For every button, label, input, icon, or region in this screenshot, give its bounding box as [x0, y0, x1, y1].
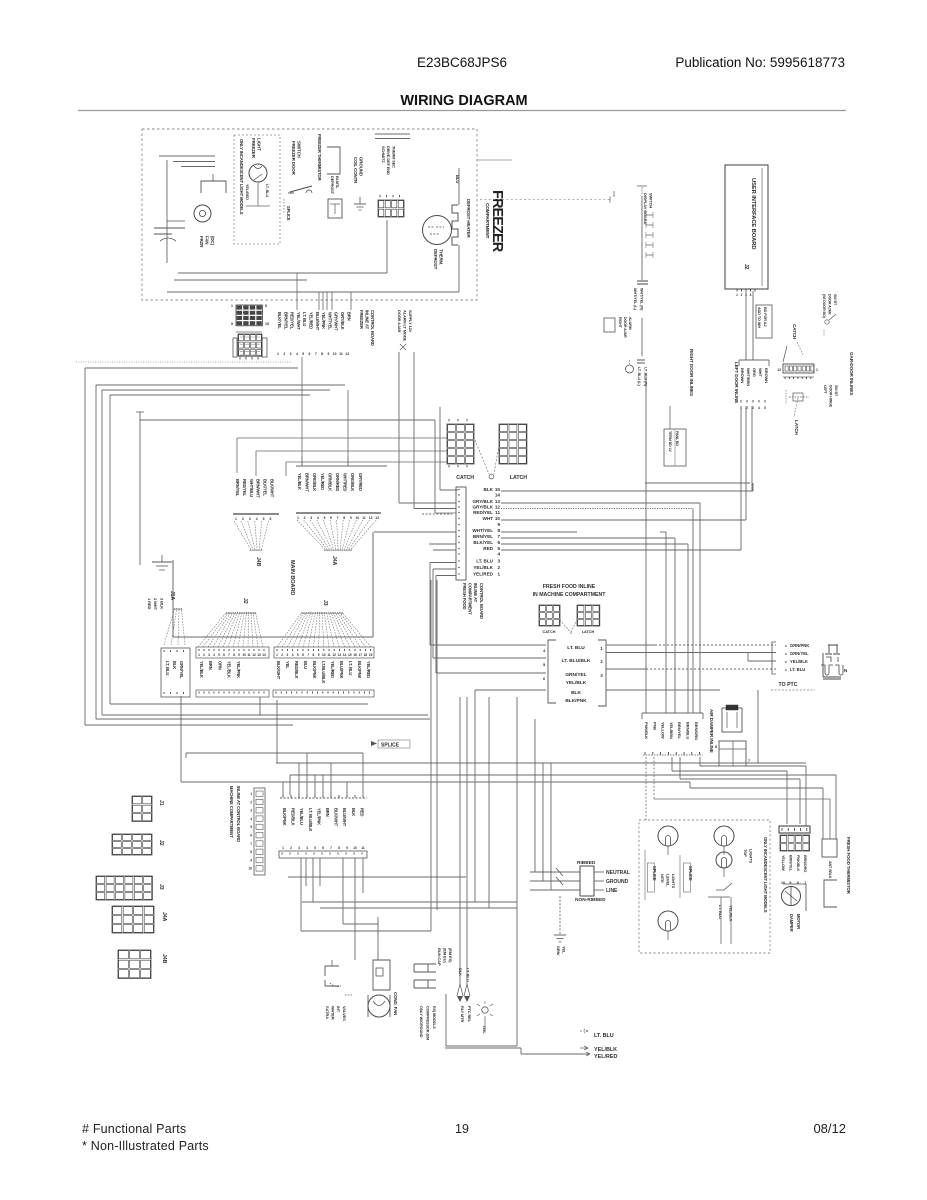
svg-text:RIBBED: RIBBED	[577, 860, 596, 866]
svg-text:SWITCH: SWITCH	[648, 193, 653, 208]
left door inline pins	[740, 400, 766, 410]
svg-text:ADD TO WH: ADD TO WH	[757, 307, 761, 328]
wire	[745, 291, 747, 360]
svg-text:5: 5	[302, 352, 304, 356]
svg-text:LIGHTS: LIGHTS	[748, 849, 753, 863]
svg-text:5: 5	[263, 517, 265, 521]
svg-text:4: 4	[256, 517, 258, 521]
svg-text:BLK: BLK	[351, 808, 356, 816]
svg-text:VALVES: VALVES	[342, 1006, 347, 1021]
label J2 (UI)	[743, 264, 749, 270]
wire bus	[95, 385, 97, 719]
cond fan motor	[368, 995, 390, 1017]
wire	[475, 690, 546, 902]
svg-text:SWITCH: SWITCH	[297, 141, 302, 158]
board lower pin bar	[196, 690, 269, 697]
svg-text:WHT/YEL (L): WHT/YEL (L)	[633, 288, 637, 311]
labels WHT/YEL	[633, 288, 643, 311]
label DOOR AJAR SWITCH	[397, 310, 413, 350]
svg-text:LT. BLU/BLK: LT. BLU/BLK	[308, 808, 313, 832]
wire	[433, 569, 456, 658]
user interface board box	[725, 165, 768, 289]
main board outline	[173, 532, 373, 637]
power ground wire	[554, 896, 566, 942]
inline column labels	[472, 487, 500, 577]
svg-text:PTC REL: PTC REL	[467, 1006, 472, 1023]
svg-text:ALARM: ALARM	[628, 317, 632, 330]
svg-text:WHT/YEL: WHT/YEL	[472, 528, 493, 533]
svg-text:ORN/RED: ORN/RED	[335, 473, 340, 491]
svg-text:4: 4	[750, 293, 752, 297]
wire	[669, 406, 671, 429]
wire	[300, 858, 302, 931]
svg-text:YEL/BRN: YEL/BRN	[669, 722, 674, 739]
svg-text:10: 10	[495, 516, 501, 521]
svg-text:YEL/BLK: YEL/BLK	[227, 661, 232, 678]
machine inline strip	[254, 788, 265, 875]
svg-text:6: 6	[322, 846, 324, 850]
svg-text:SATRA: SATRA	[325, 1006, 330, 1019]
svg-text:FRESH FOOD INLINE: FRESH FOOD INLINE	[543, 584, 596, 590]
svg-text:DAMPER: DAMPER	[789, 914, 794, 932]
svg-text:BRN/YEL: BRN/YEL	[677, 722, 682, 740]
svg-text:WHT/YEL: WHT/YEL	[327, 312, 332, 330]
fresh food inline catch grid	[539, 605, 560, 634]
wire	[551, 763, 563, 890]
svg-text:YEL/BLK: YEL/BLK	[566, 680, 587, 686]
svg-text:(DC): (DC)	[210, 236, 215, 246]
label FREEZER LIGHT	[251, 138, 262, 159]
wire	[674, 538, 676, 713]
svg-text:YEL/BLU: YEL/BLU	[299, 808, 304, 825]
wire	[606, 644, 776, 646]
svg-text:13: 13	[338, 653, 342, 657]
wire riser	[296, 273, 298, 310]
svg-text:8: 8	[313, 653, 315, 657]
wire	[799, 779, 801, 824]
water valve symbols	[325, 960, 352, 995]
air damper labels	[644, 722, 699, 740]
svg-text:9: 9	[497, 522, 500, 527]
svg-text:8: 8	[338, 846, 340, 850]
label J4A	[331, 556, 337, 566]
svg-text:LT. BLU (R): LT. BLU (R)	[643, 367, 647, 387]
svg-text:GRY/BLK: GRY/BLK	[472, 499, 493, 504]
connector J4A (spare)	[112, 906, 167, 933]
svg-text:9: 9	[238, 653, 240, 657]
left door inline labels	[740, 368, 769, 386]
wire	[343, 923, 378, 925]
wire riser	[331, 292, 333, 310]
svg-text:DEFROST: DEFROST	[330, 176, 335, 195]
note box DOOR PANL BD	[664, 429, 686, 466]
svg-text:YEL/WHT: YEL/WHT	[296, 312, 301, 330]
svg-text:INLINE AT: INLINE AT	[365, 310, 370, 330]
wire	[342, 858, 344, 924]
svg-text:1: 1	[250, 792, 252, 796]
svg-text:3: 3	[310, 516, 312, 520]
label COIL CONTR GROUND	[353, 157, 363, 184]
label YEL/RED	[245, 184, 249, 200]
label FRESH FOOD THERMISTOR	[846, 837, 851, 895]
svg-text:BLK/YEL: BLK/YEL	[473, 540, 493, 545]
svg-text:COMPRESSOR (EM: COMPRESSOR (EM	[425, 1006, 429, 1040]
wire	[347, 390, 349, 466]
label J2	[242, 598, 248, 604]
svg-text:5: 5	[297, 653, 299, 657]
svg-text:CONTROL BOARD: CONTROL BOARD	[370, 310, 375, 346]
svg-text:BLK/WHT: BLK/WHT	[276, 661, 281, 680]
svg-text:13: 13	[257, 653, 261, 657]
svg-text:BLU: BLU	[303, 661, 308, 669]
wire bus	[101, 390, 103, 715]
label FREEZER INLINE AT CONTROL BOARD	[359, 310, 375, 346]
wire bus	[85, 724, 293, 726]
board bottom labels left	[165, 661, 184, 679]
svg-text:4: 4	[292, 653, 294, 657]
wire	[433, 657, 546, 659]
svg-text:SPLICE: SPLICE	[688, 866, 693, 881]
arrow YEL/BLK	[580, 1046, 617, 1053]
label AIR DAMPER INLINE	[709, 709, 714, 753]
label NON-RIBBED	[575, 897, 606, 903]
wire	[302, 901, 517, 903]
svg-text:BD FOR AJ: BD FOR AJ	[763, 307, 767, 326]
svg-text:RIGHT: RIGHT	[618, 317, 622, 329]
wire	[178, 272, 387, 274]
wire bus	[96, 384, 345, 386]
svg-text:BLK: BLK	[458, 968, 463, 976]
label FREEZER THERMISTOR	[317, 134, 322, 181]
svg-text:ONLY INCANDESCENT LIGHT MODELS: ONLY INCANDESCENT LIGHT MODELS	[239, 139, 244, 215]
svg-text:LT. BLU: LT. BLU	[718, 905, 723, 919]
wire riser	[322, 775, 324, 795]
svg-text:WHT/BRN: WHT/BRN	[746, 368, 751, 386]
svg-text:2: 2	[497, 565, 500, 570]
svg-text:8: 8	[265, 304, 267, 308]
svg-text:BLK/PNK: BLK/PNK	[282, 808, 287, 826]
svg-text:2: 2	[741, 293, 743, 297]
wire riser	[346, 782, 348, 795]
svg-text:DRIVE DEF END: DRIVE DEF END	[386, 146, 391, 175]
label FREEZER DOOR SWITCH	[291, 141, 302, 176]
svg-text:FRESH FOOD THERMISTOR: FRESH FOOD THERMISTOR	[846, 837, 851, 895]
wire riser	[318, 292, 320, 310]
connector J2 fan	[198, 612, 263, 647]
svg-text:LT. BLU: LT. BLU	[476, 559, 493, 564]
svg-text:PNK/BLK: PNK/BLK	[644, 722, 649, 739]
wire	[288, 876, 466, 878]
svg-text:12: 12	[252, 653, 256, 657]
label J1A	[169, 591, 175, 600]
svg-text:YEL/BLK: YEL/BLK	[594, 1047, 617, 1053]
label NITE LITE LIGHTS	[660, 874, 676, 888]
svg-text:(EM EU): (EM EU)	[442, 948, 447, 963]
svg-text:BI-MTL: BI-MTL	[335, 176, 340, 189]
wire	[501, 519, 746, 521]
svg-text:9: 9	[327, 352, 329, 356]
svg-text:2 WHT: 2 WHT	[153, 598, 158, 611]
fresh food control board inline connector	[456, 487, 466, 580]
svg-text:BRN/YEL: BRN/YEL	[788, 855, 792, 872]
svg-text:LT. BLU: LT. BLU	[567, 645, 585, 651]
wire	[458, 245, 460, 292]
connector J4A pin bar	[296, 513, 381, 520]
svg-text:15: 15	[265, 322, 269, 326]
label OVL	[482, 1026, 487, 1034]
light bulb	[658, 911, 678, 940]
svg-text:TERM BD LV: TERM BD LV	[668, 431, 672, 452]
svg-text:2: 2	[242, 517, 244, 521]
label FRZR FAN (DC)	[199, 236, 215, 248]
svg-text:ALARM LT MODE: ALARM LT MODE	[403, 310, 408, 342]
svg-text:LEFT DOOR INLINE: LEFT DOOR INLINE	[734, 362, 739, 403]
svg-text:9: 9	[350, 516, 352, 520]
svg-text:GRY/WHT: GRY/WHT	[334, 312, 339, 331]
wire	[439, 407, 441, 490]
wire	[488, 697, 490, 908]
wire	[645, 757, 647, 820]
label FRESH FOOD INLINE IN MACHINE COMPARTMENT	[533, 584, 607, 598]
svg-text:CATCH: CATCH	[792, 324, 797, 340]
wire	[829, 799, 831, 839]
svg-text:BRN/ORG: BRN/ORG	[803, 855, 807, 872]
wire	[289, 775, 291, 795]
fresh food inline bracket	[548, 640, 606, 706]
svg-text:GRN/YEL: GRN/YEL	[790, 651, 809, 656]
labels BLK LT.BLU	[458, 968, 471, 982]
svg-text:10: 10	[356, 516, 360, 520]
board bottom labels mid	[199, 661, 241, 678]
board connector bar	[161, 648, 190, 697]
wire	[484, 1018, 486, 1032]
svg-text:ONLY W/GROUND: ONLY W/GROUND	[419, 1006, 423, 1038]
wire	[354, 858, 356, 960]
connector J4B wire labels	[235, 479, 275, 498]
connector J4A bracket	[296, 457, 387, 466]
svg-text:6: 6	[223, 653, 225, 657]
svg-text:J4A: J4A	[161, 912, 167, 922]
svg-text:THERM SEC: THERM SEC	[391, 146, 396, 168]
to-ptc connector labels	[772, 642, 809, 674]
svg-text:7: 7	[748, 759, 750, 763]
wire	[174, 279, 307, 281]
svg-text:9: 9	[318, 653, 320, 657]
strip pin numbers	[248, 792, 252, 871]
svg-text:BRN/YEL: BRN/YEL	[473, 534, 493, 539]
power cord plug	[556, 866, 594, 896]
svg-text:PANL BD: PANL BD	[675, 431, 679, 446]
wire	[543, 763, 563, 881]
svg-text:(WI DOOR BO): (WI DOOR BO)	[822, 294, 826, 319]
svg-text:INLINE AT: INLINE AT	[473, 583, 478, 603]
svg-text:ONLY INCANDESCENT LIGHT MODELS: ONLY INCANDESCENT LIGHT MODELS	[763, 837, 768, 913]
svg-text:1: 1	[231, 304, 233, 308]
svg-text:J4A: J4A	[331, 556, 337, 566]
label DEFROST THERM.	[433, 249, 444, 270]
wire	[501, 531, 577, 533]
light bulb	[658, 826, 678, 855]
label FREEZER	[489, 190, 505, 253]
wire	[375, 134, 410, 139]
svg-text:YELLOW: YELLOW	[661, 722, 666, 739]
wire	[671, 757, 673, 771]
svg-text:TOP: TOP	[743, 849, 748, 857]
lights connector header	[779, 826, 810, 833]
wire	[501, 502, 700, 504]
svg-text:RED/YEL: RED/YEL	[242, 479, 247, 497]
svg-text:BLU/PNK: BLU/PNK	[339, 661, 344, 679]
svg-text:GROUND: GROUND	[606, 879, 629, 885]
svg-text:YEL/BLK: YEL/BLK	[297, 473, 302, 490]
svg-text:NON-RIBBED: NON-RIBBED	[575, 897, 606, 903]
svg-text:RIGHT DOOR INLINES: RIGHT DOOR INLINES	[689, 349, 694, 396]
label DAMPER MOTOR	[789, 914, 801, 932]
wire	[173, 161, 215, 163]
svg-text:ORG: ORG	[752, 368, 757, 377]
wire riser	[314, 775, 316, 795]
publication number header	[675, 55, 845, 70]
pin ticks	[543, 648, 546, 681]
board lower pin bar	[273, 690, 374, 697]
connector J4A fan	[297, 520, 376, 551]
label J3	[322, 600, 328, 606]
svg-text:WHT: WHT	[483, 516, 494, 521]
wire bus	[110, 703, 368, 705]
label RIGHT DOOR HINGE	[822, 294, 837, 319]
svg-text:BRN/YEL: BRN/YEL	[283, 312, 288, 330]
wire	[185, 753, 187, 758]
label SPLICE (lights)	[645, 850, 657, 900]
svg-text:2: 2	[290, 846, 292, 850]
svg-text:3: 3	[290, 352, 292, 356]
labels NEUTRAL GROUND LINE	[594, 870, 630, 894]
catch-latch link	[475, 440, 499, 479]
svg-text:J3: J3	[322, 600, 328, 606]
wire	[641, 318, 643, 356]
label DISPLAY HOLDER SWITCH	[643, 193, 653, 225]
wire	[660, 531, 666, 533]
svg-text:1: 1	[497, 572, 500, 577]
svg-text:10: 10	[242, 653, 246, 657]
svg-text:ORN/BLK: ORN/BLK	[327, 473, 332, 491]
wire	[445, 1047, 521, 1049]
wire	[458, 168, 460, 205]
label RLY MTR PTC	[460, 1006, 472, 1023]
wire	[606, 652, 776, 654]
air damper pin bar	[643, 752, 703, 755]
wire	[740, 406, 742, 550]
svg-text:COIL CONTR: COIL CONTR	[353, 157, 358, 184]
thermistor bracket	[824, 880, 837, 907]
svg-text:2: 2	[203, 653, 205, 657]
svg-text:GRY/BLK: GRY/BLK	[472, 505, 493, 510]
svg-text:7: 7	[497, 534, 500, 539]
svg-text:RED/BLK: RED/BLK	[294, 661, 299, 679]
wire	[436, 576, 456, 674]
wire	[700, 757, 806, 826]
svg-text:J2: J2	[743, 264, 749, 270]
label SPLICE (lights) 2	[680, 855, 693, 898]
svg-text:19: 19	[455, 1122, 469, 1136]
svg-text:YEL/BLK: YEL/BLK	[199, 661, 204, 678]
freezer compartment dashed box	[142, 129, 477, 300]
machine board wire labels	[282, 808, 364, 832]
freezer light bulb	[249, 164, 267, 182]
footer date	[813, 1121, 846, 1136]
svg-text:LINE: LINE	[606, 888, 618, 894]
connector J1A fan	[164, 608, 185, 645]
wire	[301, 357, 303, 466]
svg-text:5: 5	[764, 406, 766, 410]
svg-text:SPLICE: SPLICE	[381, 743, 400, 749]
board connector bar	[274, 647, 374, 658]
svg-text:SPLICE: SPLICE	[286, 206, 291, 221]
svg-text:* Non-Illustrated Parts: * Non-Illustrated Parts	[82, 1139, 209, 1153]
svg-text:9: 9	[250, 858, 252, 862]
svg-text:18: 18	[364, 653, 368, 657]
wire	[645, 376, 647, 713]
svg-text:E23BC68JPS6: E23BC68JPS6	[417, 55, 507, 70]
svg-text:1 RED: 1 RED	[147, 598, 152, 609]
svg-text:WHT/BLU: WHT/BLU	[249, 479, 254, 497]
svg-text:ANT SBLK: ANT SBLK	[828, 861, 832, 879]
svg-text:10: 10	[333, 352, 337, 356]
light bulb	[716, 852, 732, 877]
svg-text:5: 5	[314, 846, 316, 850]
arrow YEL/RED	[586, 1052, 617, 1060]
label DEFROST HEATER	[466, 199, 471, 238]
svg-text:4: 4	[317, 516, 319, 520]
svg-text:DISPLAY BOARD: DISPLAY BOARD	[643, 193, 648, 225]
svg-text:14: 14	[343, 653, 347, 657]
svg-text:8: 8	[321, 352, 323, 356]
wire	[720, 897, 722, 944]
freezer fan motor	[194, 205, 211, 222]
svg-text:CATCH: CATCH	[456, 475, 474, 481]
door ajar indicator	[626, 360, 634, 373]
svg-text:BRN/YEL: BRN/YEL	[235, 479, 240, 497]
wire	[637, 186, 647, 194]
svg-text:SCHMITZ: SCHMITZ	[381, 146, 386, 163]
compressor feed arrows	[457, 697, 470, 1002]
svg-text:6: 6	[302, 653, 304, 657]
label WATER VALVES	[325, 1006, 347, 1021]
wire	[501, 537, 675, 539]
label SPLICE	[371, 740, 410, 749]
damper motor	[782, 884, 807, 911]
svg-text:LT. BLU: LT. BLU	[265, 184, 269, 198]
svg-text:USER INTERFACE BOARD: USER INTERFACE BOARD	[750, 178, 756, 249]
wire	[446, 1045, 517, 1047]
svg-text:TO PTC: TO PTC	[779, 682, 798, 688]
svg-text:ES) MODELS: ES) MODELS	[432, 1006, 436, 1029]
wire	[692, 509, 694, 714]
wire riser	[326, 292, 328, 310]
label DRIVE DEF END THERMAL	[381, 146, 396, 175]
label CATCH	[456, 475, 474, 481]
lights dashed box	[639, 820, 770, 953]
svg-text:MOTOR: MOTOR	[796, 914, 801, 929]
connector J4A wire labels	[297, 473, 363, 492]
svg-text:YEL/RED: YEL/RED	[366, 661, 371, 678]
svg-text:12: 12	[369, 516, 373, 520]
svg-text:6: 6	[270, 517, 272, 521]
svg-text:4: 4	[497, 552, 500, 557]
svg-text:AIR DAMPER INLINE: AIR DAMPER INLINE	[709, 709, 714, 753]
svg-text:J1: J1	[158, 800, 164, 806]
svg-text:10: 10	[353, 846, 357, 850]
